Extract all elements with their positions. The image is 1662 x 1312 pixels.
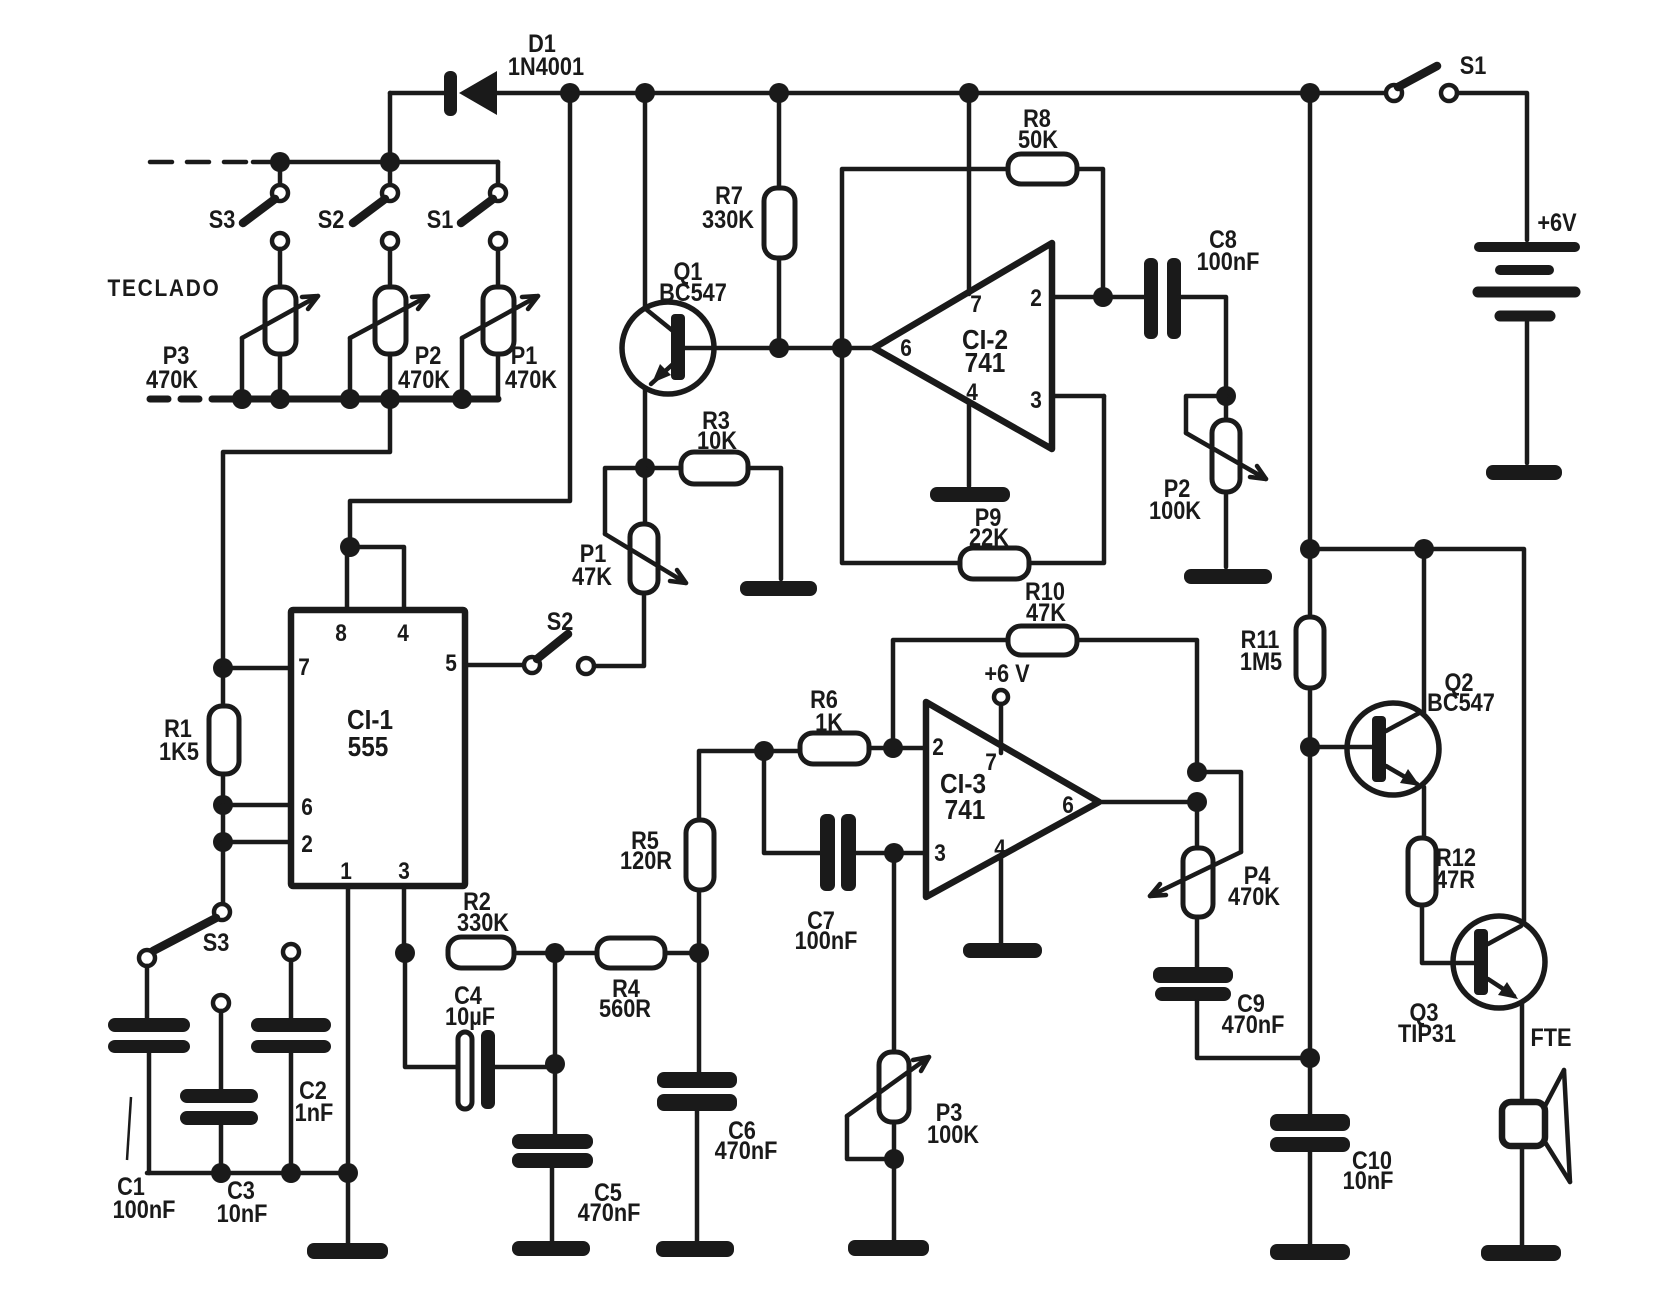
speaker FTE bbox=[1502, 1024, 1572, 1245]
node: P3 wiper tie bbox=[884, 1149, 904, 1169]
wire keyboard bottom bus (dashed continuation) bbox=[150, 396, 213, 403]
svg-text:3: 3 bbox=[1030, 387, 1042, 414]
svg-text:8: 8 bbox=[335, 620, 347, 647]
svg-text:470K: 470K bbox=[398, 366, 450, 394]
wire CI-2 pin 3 bbox=[1052, 394, 1104, 399]
ground (FTE) bbox=[1481, 1245, 1561, 1261]
svg-text:100nF: 100nF bbox=[795, 927, 858, 955]
svg-text:10nF: 10nF bbox=[1343, 1167, 1394, 1195]
capacitor C4 10uF (electrolytic) bbox=[405, 953, 555, 1109]
svg-text:47K: 47K bbox=[1026, 599, 1066, 627]
svg-text:1K: 1K bbox=[815, 709, 843, 737]
svg-text:560R: 560R bbox=[599, 995, 651, 1023]
svg-text:1K5: 1K5 bbox=[159, 738, 199, 766]
svg-text:S2: S2 bbox=[318, 206, 345, 234]
svg-text:50K: 50K bbox=[1018, 126, 1058, 154]
IC CI-1 555 timer bbox=[291, 610, 465, 886]
capacitor C2 1nF bbox=[251, 944, 333, 1173]
ground (C5) bbox=[512, 1241, 590, 1256]
resistor R10 47K (feedback) bbox=[893, 578, 1197, 771]
svg-text:4: 4 bbox=[397, 620, 409, 647]
wire CI-2 pin 2 output bbox=[1052, 295, 1144, 300]
node: Q2 collector tap bbox=[1414, 539, 1434, 559]
switch S1 (keyboard key) bbox=[427, 162, 506, 233]
node: bus at C3 bbox=[211, 1163, 231, 1183]
svg-text:555: 555 bbox=[348, 730, 389, 762]
node: pin 3 / R2 left bbox=[395, 943, 415, 963]
ground (C10) bbox=[1270, 1244, 1350, 1260]
node +6V terminal (CI-3 pin 7) bbox=[984, 660, 1030, 753]
wire 555 pin 4 to supply node bbox=[347, 547, 404, 610]
resistor R5 120R bbox=[620, 751, 800, 953]
node: top rail junction at CI-2 pin 7 bbox=[959, 83, 979, 103]
svg-text:2: 2 bbox=[301, 831, 313, 858]
node: R4 right / R5 bottom / C6 bbox=[689, 943, 709, 963]
ground (battery) bbox=[1486, 465, 1562, 480]
resistor R4 560R bbox=[597, 938, 699, 1022]
wire 555 pin 3 down bbox=[402, 886, 407, 953]
wire collector feed to Q3 bbox=[1310, 549, 1524, 923]
svg-text:6: 6 bbox=[900, 335, 912, 362]
node: 555 pin 2 bbox=[213, 832, 233, 852]
potentiometer P1 470K (keyboard) bbox=[462, 233, 557, 399]
switch S3 (tone range) bbox=[139, 904, 230, 966]
ground (P2 100K) bbox=[1184, 569, 1272, 584]
wire top supply rail left segment bbox=[390, 91, 446, 96]
node: R6 right / R10 left (CI-3 pin 2) bbox=[883, 738, 903, 758]
label TECLADO bbox=[107, 275, 220, 302]
node: CI-2 output / R8 bbox=[1093, 287, 1113, 307]
switch S2 (keyboard key) bbox=[318, 162, 398, 233]
wire Q1 base to CI-2 pin 6 bbox=[685, 346, 874, 351]
wire 555 pin 8 to supply node bbox=[345, 547, 350, 610]
node: top bus at S2 bbox=[380, 152, 400, 172]
svg-text:10nF: 10nF bbox=[217, 1200, 268, 1228]
node: bottom bus at P1 wiper bbox=[452, 389, 472, 409]
node: bottom bus at P2 wiper bbox=[340, 389, 360, 409]
node: 555 pins 8/4 supply bbox=[340, 537, 360, 557]
capacitor C8 100nF bbox=[1144, 226, 1259, 396]
svg-text:2: 2 bbox=[932, 734, 944, 761]
svg-text:741: 741 bbox=[945, 793, 986, 825]
potentiometer P9 22K (trimmer) bbox=[960, 396, 1104, 579]
capacitor C9 470nF bbox=[1153, 967, 1310, 1058]
node: bottom bus at P3 wiper bbox=[232, 389, 252, 409]
svg-text:100nF: 100nF bbox=[1197, 248, 1260, 276]
transistor Q1 BC547 bbox=[622, 258, 727, 468]
svg-text:1M5: 1M5 bbox=[1240, 648, 1282, 676]
svg-text:1N4001: 1N4001 bbox=[508, 53, 584, 81]
wire CI-3 pin 6 output bbox=[1099, 800, 1197, 805]
ground (main bus) bbox=[307, 1243, 388, 1259]
resistor R3 10K bbox=[645, 407, 781, 579]
capacitor C6 470nF bbox=[657, 953, 777, 1241]
capacitor C5 470nF bbox=[512, 953, 640, 1241]
node: R1 top / 555 pin 7 bbox=[213, 658, 233, 678]
capacitor C7 100nF bbox=[764, 751, 926, 954]
node: C4 right on C5 branch bbox=[545, 1054, 565, 1074]
potentiometer P4 470K bbox=[1150, 772, 1280, 967]
capacitor C3 10nF bbox=[180, 995, 267, 1227]
svg-text:3: 3 bbox=[398, 858, 410, 885]
svg-text:330K: 330K bbox=[702, 206, 754, 234]
node: R11 bottom / Q2 base bbox=[1300, 737, 1320, 757]
potentiometer P3 470K (keyboard) bbox=[146, 233, 318, 399]
svg-text:100nF: 100nF bbox=[113, 1196, 176, 1224]
svg-text:470nF: 470nF bbox=[578, 1199, 641, 1227]
node: C9 / C10 junction on rail bbox=[1300, 1048, 1320, 1068]
battery B1 +6V bbox=[1478, 209, 1577, 316]
switch S1 (power) bbox=[1386, 52, 1486, 101]
svg-text:100K: 100K bbox=[927, 1121, 979, 1149]
wire 555 pin 6 bbox=[223, 803, 291, 808]
resistor R6 1K bbox=[800, 686, 926, 764]
transistor Q3 TIP31 bbox=[1398, 916, 1545, 1100]
capacitor C10 10nF bbox=[1270, 1058, 1393, 1244]
node: R2 right / R4 left / C5 bbox=[545, 943, 565, 963]
wire CI-2 pin 7 from top rail bbox=[967, 93, 972, 294]
node: R5 top / R6 / C7 bbox=[754, 741, 774, 761]
ground (CI-2 pin 4) bbox=[930, 487, 1010, 502]
diode D1 (1N4001) bbox=[444, 30, 584, 116]
resistor R11 1M5 bbox=[1240, 549, 1324, 747]
wire 555 pin 7 bbox=[223, 666, 291, 671]
svg-text:S1: S1 bbox=[1460, 52, 1487, 80]
svg-text:7: 7 bbox=[985, 749, 997, 776]
wire Q1 collector to top rail bbox=[643, 93, 648, 308]
wire CI-2 pin 4 to ground bbox=[967, 402, 972, 486]
wire battery negative to ground bbox=[1525, 322, 1530, 463]
node: C8 / P2 100K bbox=[1216, 386, 1236, 406]
node: top rail junction at R7 bbox=[769, 83, 789, 103]
svg-text:+6V: +6V bbox=[1537, 209, 1577, 237]
svg-text:470nF: 470nF bbox=[715, 1137, 778, 1165]
potentiometer P1 47K bbox=[572, 468, 686, 593]
node: top rail junction at 555 supply drop bbox=[560, 83, 580, 103]
svg-text:+6 V: +6 V bbox=[984, 660, 1030, 688]
svg-text:5: 5 bbox=[445, 650, 457, 677]
wire top supply rail middle segment bbox=[497, 91, 1386, 96]
wire 555 pin 2 bbox=[223, 840, 291, 845]
svg-text:6: 6 bbox=[301, 794, 313, 821]
resistor R8 50K bbox=[842, 105, 1103, 563]
transistor Q2 BC547 bbox=[1347, 549, 1495, 838]
wire keyboard bottom bus bbox=[213, 396, 498, 403]
svg-text:1: 1 bbox=[340, 858, 352, 885]
svg-text:470nF: 470nF bbox=[1222, 1011, 1285, 1039]
svg-text:330K: 330K bbox=[457, 909, 509, 937]
node: bus at 555 pin 1 bbox=[338, 1163, 358, 1183]
svg-text:22K: 22K bbox=[969, 524, 1009, 552]
svg-text:S3: S3 bbox=[203, 929, 230, 957]
svg-text:2: 2 bbox=[1030, 285, 1042, 312]
wire ground bus (C1/C3/C2/pin1) bbox=[147, 1171, 348, 1176]
wire S1 to battery positive bbox=[1457, 93, 1527, 240]
wire D1 anode drop to keyboard top bus bbox=[388, 93, 393, 162]
svg-text:7: 7 bbox=[970, 291, 982, 318]
wire 555 pin 5 to S2 bbox=[465, 663, 524, 668]
wire keyboard bus to R1/pin7 node bbox=[223, 399, 390, 668]
wire keyboard top bus (dashed continuation) bbox=[150, 160, 253, 165]
ground (R3) bbox=[740, 581, 817, 596]
potentiometer P3 100K bbox=[847, 853, 979, 1240]
node: top rail junction at Q1 collector bbox=[635, 83, 655, 103]
node: bottom bus at P2 bbox=[380, 389, 400, 409]
svg-text:741: 741 bbox=[965, 346, 1006, 378]
svg-text:TIP31: TIP31 bbox=[1398, 1020, 1456, 1048]
switch S2 (vibrato) bbox=[524, 608, 594, 674]
node: R10 right / P4 wiper bbox=[1187, 762, 1207, 782]
svg-text:47K: 47K bbox=[572, 563, 612, 591]
node: bus at C2 bbox=[281, 1163, 301, 1183]
wire S2 to P1 47K bottom bbox=[594, 593, 644, 666]
node: rail / collector feed bbox=[1300, 539, 1320, 559]
svg-text:470K: 470K bbox=[146, 366, 198, 394]
op-amp CI-2 741 bbox=[874, 243, 1052, 449]
op-amp CI-3 741 bbox=[926, 702, 1099, 897]
wire R11 node down the rail bbox=[1308, 747, 1313, 1058]
svg-text:47R: 47R bbox=[1435, 866, 1475, 894]
wire pin2 node down to S3 bbox=[221, 842, 226, 904]
ground (P3 100K) bbox=[848, 1240, 929, 1256]
svg-text:10µF: 10µF bbox=[445, 1003, 495, 1031]
svg-text:6: 6 bbox=[1062, 792, 1074, 819]
wire right supply rail bbox=[1308, 93, 1313, 549]
resistor R2 330K bbox=[448, 888, 597, 968]
node: top bus at S3 bbox=[270, 152, 290, 172]
wire keyboard top bus bbox=[253, 160, 498, 165]
svg-text:S2: S2 bbox=[547, 608, 574, 636]
resistor R7 330K bbox=[702, 93, 795, 348]
node: feedback tap on base wire bbox=[832, 338, 852, 358]
resistor R12 47R bbox=[1408, 838, 1476, 963]
wire pin6 to pin2 node bbox=[221, 805, 226, 842]
node: CI-3 output bbox=[1187, 792, 1207, 812]
svg-text:TECLADO: TECLADO bbox=[107, 275, 220, 302]
node: Q1 emitter / R3 / P1 47K bbox=[635, 458, 655, 478]
svg-text:470K: 470K bbox=[1228, 883, 1280, 911]
svg-text:3: 3 bbox=[934, 840, 946, 867]
svg-text:100K: 100K bbox=[1149, 497, 1201, 525]
resistor R1 1K5 bbox=[159, 668, 239, 805]
svg-text:FTE: FTE bbox=[1530, 1024, 1571, 1052]
potentiometer P2 100K bbox=[1149, 396, 1266, 567]
node: R1 bottom / 555 pin 6 bbox=[213, 795, 233, 815]
svg-text:1nF: 1nF bbox=[295, 1099, 334, 1127]
svg-text:120R: 120R bbox=[620, 847, 672, 875]
switch S3 (keyboard key) bbox=[209, 162, 288, 233]
svg-text:BC547: BC547 bbox=[659, 279, 727, 307]
ground (C6) bbox=[656, 1241, 734, 1257]
node: top rail junction at right rail bbox=[1300, 83, 1320, 103]
wire 555 pin 1 to ground bus bbox=[346, 886, 351, 1243]
svg-text:10K: 10K bbox=[697, 427, 737, 455]
potentiometer P2 470K (keyboard) bbox=[350, 233, 450, 399]
ground (CI-3 pin 4) bbox=[963, 943, 1042, 958]
wire Q2 base bbox=[1310, 745, 1372, 750]
node: R7 bottom on base wire bbox=[769, 338, 789, 358]
svg-text:S1: S1 bbox=[427, 206, 454, 234]
svg-text:BC547: BC547 bbox=[1427, 689, 1495, 717]
capacitor C1 100nF bbox=[108, 966, 190, 1223]
svg-text:S3: S3 bbox=[209, 206, 236, 234]
wire CI-3 pin 4 to ground bbox=[999, 858, 1004, 943]
node: C7 right / P3 100K (CI-3 pin 3) bbox=[884, 843, 904, 863]
node: bottom bus at P3 bbox=[270, 389, 290, 409]
svg-text:470K: 470K bbox=[505, 366, 557, 394]
svg-text:7: 7 bbox=[298, 654, 310, 681]
wire 555 supply to top rail bbox=[350, 93, 570, 547]
